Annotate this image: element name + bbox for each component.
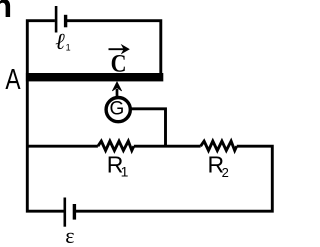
svg-text:1: 1: [66, 43, 71, 53]
resistor R1 zigzag: [98, 141, 134, 150]
svg-text:ℓ: ℓ: [55, 29, 65, 54]
resistor R2 zigzag: [201, 141, 237, 150]
wire middle left lead: [27, 145, 98, 148]
svg-text:A: A: [5, 65, 21, 96]
wire left loop (top-left corner, left vertical, bottom-left corner): [27, 21, 63, 212]
svg-text:1: 1: [121, 163, 129, 179]
svg-text:2: 2: [222, 165, 229, 180]
wire top segment to top-right corner down to bar: [67, 21, 161, 75]
potentiometer wire bar AB: [26, 73, 163, 81]
wire middle between R1 and R2: [134, 145, 201, 148]
wire bottom-right corner up to middle wire: [76, 146, 273, 211]
vector C arrow: [109, 48, 125, 50]
svg-text:ε: ε: [65, 223, 74, 247]
battery cell epsilon short plate: [73, 204, 76, 220]
svg-text:h: h: [0, 0, 12, 24]
battery cell l1 short plate: [64, 15, 67, 27]
wire galvanometer to junction: [130, 109, 166, 146]
galvanometer G circle: [106, 98, 130, 122]
jockey arrow to bar: [116, 89, 119, 97]
battery cell l1 long plate: [55, 6, 58, 33]
battery cell epsilon long plate: [64, 198, 67, 227]
svg-text:G: G: [110, 99, 125, 120]
svg-text:C: C: [111, 50, 127, 78]
